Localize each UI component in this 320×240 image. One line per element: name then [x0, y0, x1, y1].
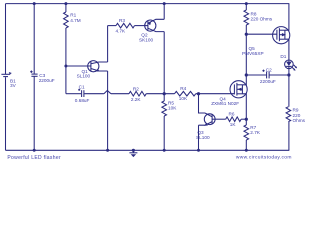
wire C3 column upper	[33, 4, 35, 74]
drain jog	[242, 75, 246, 85]
svg-text:R2: R2	[133, 86, 139, 91]
capacitor C3 branch	[30, 2, 55, 152]
node C2/Q4 drain	[245, 73, 248, 76]
resistor R7	[244, 119, 261, 150]
base of Q3	[212, 118, 226, 120]
node R2/R4/R5/Q2	[163, 92, 166, 95]
wire C2 to LED column	[270, 74, 289, 76]
node C2/LED column	[287, 73, 290, 76]
drain jog to top rail	[285, 4, 289, 31]
mosfet Q5	[242, 4, 290, 60]
capacitor C2	[260, 67, 276, 84]
wire C3 column lower	[33, 77, 35, 151]
wire bottom rail	[6, 149, 290, 151]
capacitor C3	[31, 73, 37, 75]
svg-text:0.68uF: 0.68uF	[75, 98, 90, 103]
source jog down	[285, 39, 289, 60]
wire Q1 collector up	[107, 26, 109, 62]
wire R4 to Q4 gate	[196, 93, 235, 95]
wire Q2 collector down	[163, 32, 165, 94]
resistor R6	[226, 112, 247, 128]
channel bar	[278, 28, 280, 41]
svg-text:10K: 10K	[179, 96, 188, 101]
svg-text:Ohms: Ohms	[293, 118, 306, 123]
node R7 bottom rail	[245, 149, 248, 152]
transistor Q1	[77, 61, 108, 79]
transistor Q3	[196, 113, 226, 140]
wire hop to R2	[111, 93, 129, 95]
node R6/R7/Q4 source	[245, 118, 248, 121]
node top rail R8	[245, 2, 248, 5]
svg-text:R8: R8	[251, 11, 257, 16]
resistor R8 branch	[244, 2, 273, 75]
svg-text:220 Ohms: 220 Ohms	[251, 17, 273, 22]
source jog	[242, 94, 246, 119]
node base tap	[64, 65, 67, 68]
svg-text:R9: R9	[293, 108, 299, 113]
capacitor C1	[75, 84, 90, 103]
svg-text:SK100: SK100	[139, 37, 153, 42]
ground	[129, 149, 137, 157]
wire Q3 collector column	[199, 94, 206, 113]
wire hop over emitter line	[104, 91, 111, 94]
wire Q2 emitter to top rail	[163, 4, 165, 20]
resistor R5	[162, 94, 177, 151]
svg-text:2200uF: 2200uF	[39, 78, 55, 83]
collector diag of Q3	[205, 113, 212, 117]
LED D1	[280, 54, 297, 75]
arrow N-channel	[237, 88, 241, 91]
node top of C3 column	[33, 2, 36, 5]
gate bar	[276, 30, 278, 40]
svg-text:R1: R1	[70, 13, 76, 18]
svg-text:D1: D1	[280, 54, 286, 59]
node Q1 emitter at bottom rail	[106, 149, 109, 152]
wire R1 bottom to C1 corner	[65, 28, 67, 94]
resistor R4	[175, 86, 196, 101]
node Q3 emitter bottom rail	[197, 149, 200, 152]
wire left column lower	[5, 77, 7, 150]
svg-text:2.2K: 2.2K	[131, 97, 142, 102]
resistor R1	[64, 12, 69, 28]
resistor R8	[244, 10, 249, 25]
node top rail Q2	[163, 2, 166, 5]
node R8 gate junction	[245, 33, 248, 36]
svg-text:10K: 10K	[168, 106, 177, 111]
node top of R1 column	[64, 2, 67, 5]
svg-text:SL100: SL100	[77, 74, 91, 79]
svg-text:R3: R3	[119, 18, 125, 23]
svg-text:3V: 3V	[10, 83, 17, 88]
svg-text:2200uF: 2200uF	[260, 79, 276, 84]
emitter of Q2 with arrow	[148, 19, 164, 23]
wire C2 row	[246, 74, 266, 76]
wire to Q5 gate	[246, 33, 277, 35]
node R4/Q3	[197, 92, 200, 95]
wire C1 row	[66, 93, 81, 95]
wire Q1 emitter down	[107, 71, 109, 150]
collector of Q2	[148, 28, 164, 31]
emitter diag of Q3 with arrow	[199, 122, 213, 126]
resistor R1 branch	[64, 2, 81, 94]
transistor Q2	[139, 19, 164, 42]
node R5 bottom rail	[163, 149, 166, 152]
svg-text:C2: C2	[266, 67, 272, 72]
battery B1	[1, 73, 10, 75]
svg-text:4.7M: 4.7M	[70, 18, 81, 23]
svg-text:Powerful LED flasher: Powerful LED flasher	[7, 155, 61, 161]
svg-text:C1: C1	[79, 84, 85, 89]
wire R1 top lead	[65, 4, 67, 12]
wire R3 to Q2 base	[135, 25, 148, 27]
wire to R3	[108, 25, 116, 27]
gate bar	[233, 84, 235, 94]
resistor R3	[116, 18, 135, 34]
svg-text:PMV65XP: PMV65XP	[242, 51, 264, 56]
svg-text:2.7K: 2.7K	[250, 130, 261, 135]
resistor R2	[129, 86, 146, 102]
channel bar	[236, 83, 238, 96]
wire C1 to hop	[84, 93, 104, 95]
stubs	[237, 84, 243, 86]
svg-text:1K: 1K	[230, 122, 237, 127]
battery B1 branch	[1, 4, 16, 151]
wire left column upper	[5, 4, 7, 75]
wire R2 to node	[146, 93, 174, 95]
wire Q3 emitter down	[198, 125, 200, 150]
svg-text:R4: R4	[180, 86, 186, 91]
mosfet Q4	[211, 75, 247, 119]
stubs	[279, 29, 285, 31]
wire top rail	[6, 3, 290, 5]
svg-text:R6: R6	[229, 112, 235, 117]
collector of Q1	[91, 62, 108, 64]
LED arrows	[292, 67, 295, 70]
svg-text:ZXM61 N02F: ZXM61 N02F	[211, 101, 239, 106]
wire Q1 base	[66, 65, 91, 67]
arrow P-channel	[282, 33, 286, 36]
emitter of Q1 with arrow	[91, 69, 108, 72]
svg-text:220: 220	[293, 113, 301, 118]
node bottom of C3 column	[33, 149, 36, 152]
svg-text:www.circuitstoday.com: www.circuitstoday.com	[236, 155, 292, 161]
svg-text:Q5: Q5	[249, 46, 256, 51]
resistor R9	[286, 75, 306, 150]
svg-text:4.7K: 4.7K	[116, 29, 127, 34]
